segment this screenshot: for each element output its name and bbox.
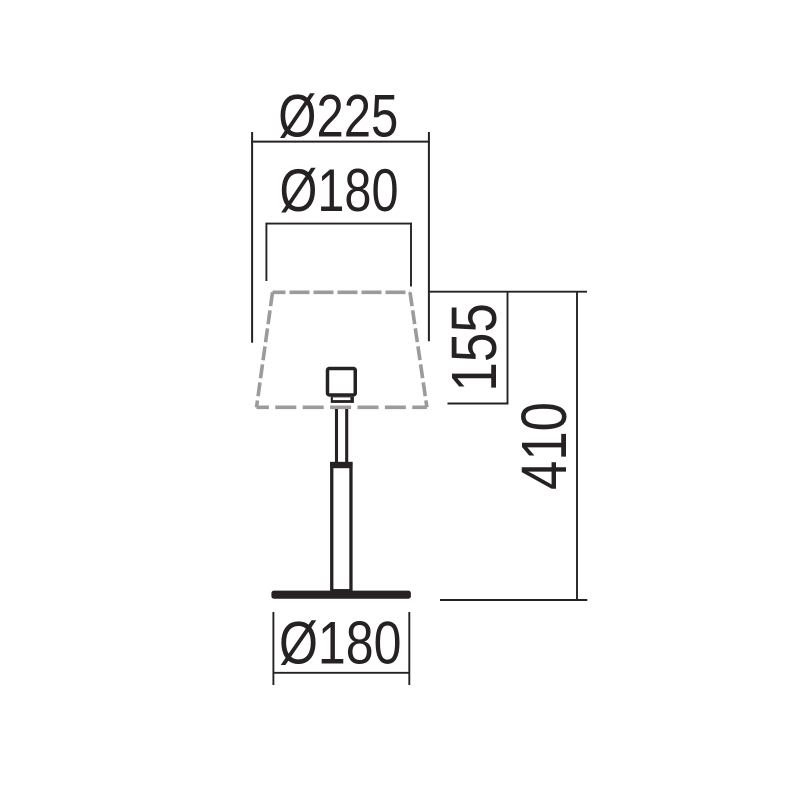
dimension line Ø180 top bbox=[266, 223, 412, 225]
svg-text:410: 410 bbox=[508, 402, 580, 490]
lamp shade dashed bottom edge bbox=[257, 405, 427, 409]
dimension line 410 bottom bbox=[440, 599, 587, 601]
lamp socket neck bbox=[331, 397, 354, 403]
extension line Ø225 left bbox=[251, 132, 253, 343]
dimension line 155 vertical bbox=[507, 292, 509, 405]
lamp shade dashed top edge bbox=[273, 290, 411, 294]
dimension line Ø225 bbox=[251, 141, 430, 143]
lamp socket neck window bbox=[333, 397, 351, 400]
stem column outline bbox=[332, 464, 351, 591]
extension line Ø225 right bbox=[428, 132, 430, 341]
lamp shade dashed left edge bbox=[257, 292, 273, 407]
tick Ø180 top right bbox=[410, 223, 412, 287]
svg-text:155: 155 bbox=[438, 303, 510, 391]
dimension line 155 bottom bbox=[448, 403, 509, 405]
dimension line Ø180 bottom bbox=[273, 672, 409, 674]
tick Ø180 bottom right bbox=[408, 612, 410, 685]
stem upper tube right line bbox=[345, 409, 348, 463]
stem upper tube left line bbox=[335, 409, 338, 463]
dimension line 410 vertical bbox=[576, 292, 578, 600]
svg-text:Ø180: Ø180 bbox=[279, 610, 402, 677]
stem column collar bbox=[330, 462, 353, 468]
lamp shade dashed right edge bbox=[410, 292, 427, 407]
lamp socket body bbox=[328, 368, 356, 395]
svg-text:Ø225: Ø225 bbox=[278, 83, 398, 150]
lamp base bbox=[271, 591, 411, 599]
tick Ø180 top left bbox=[265, 223, 267, 281]
svg-text:Ø180: Ø180 bbox=[280, 157, 399, 224]
dimension line 155/410 shared top bbox=[429, 291, 587, 293]
tick Ø180 bottom left bbox=[272, 612, 274, 685]
